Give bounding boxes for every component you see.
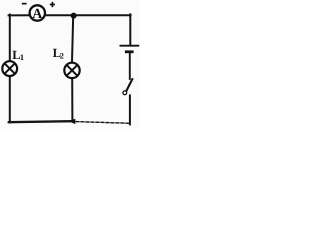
battery cell negative plate <box>125 50 134 53</box>
wire left vertical lower <box>9 76 11 122</box>
wire bottom dashed segment <box>76 122 130 124</box>
ammeter A1 <box>30 5 45 22</box>
wire right vertical upper <box>129 14 131 45</box>
wire right vertical middle <box>129 53 131 79</box>
lamp L1 <box>2 61 17 76</box>
node arrow at junction of lamp branch and bottom rail <box>69 119 75 125</box>
wire lamp2 branch upper <box>72 15 73 62</box>
wire right vertical lower <box>129 95 131 124</box>
wire lamp2 branch lower <box>71 79 73 121</box>
switch S blade <box>126 78 133 91</box>
svg-text:1: 1 <box>20 53 24 62</box>
battery cell positive plate <box>120 45 140 47</box>
wire top-right segment <box>46 14 131 16</box>
svg-text:2: 2 <box>60 52 64 61</box>
polarity plus sign <box>50 2 55 7</box>
polarity minus sign <box>22 3 27 5</box>
svg-text:A: A <box>32 7 43 22</box>
switch S pivot <box>123 91 127 95</box>
wire left vertical upper <box>9 15 11 62</box>
lamp L2 <box>64 63 79 78</box>
wire bottom rail solid <box>9 121 71 122</box>
wire top-left segment <box>9 14 30 16</box>
node junction dot <box>71 13 77 19</box>
